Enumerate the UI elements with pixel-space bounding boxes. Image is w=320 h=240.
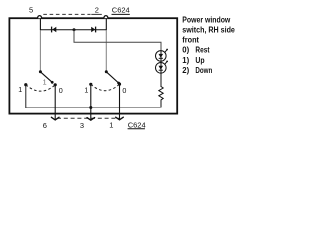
svg-text:2: 2 (95, 6, 99, 15)
svg-text:front: front (182, 35, 199, 45)
svg-text:Down: Down (195, 65, 212, 75)
svg-text:1: 1 (109, 120, 113, 129)
svg-text:1): 1) (182, 55, 189, 65)
svg-text:Rest: Rest (195, 45, 209, 55)
svg-text:C624: C624 (128, 120, 146, 129)
svg-text:1: 1 (43, 77, 47, 86)
svg-text:5: 5 (29, 6, 33, 15)
svg-text:1: 1 (84, 85, 88, 94)
svg-text:Up: Up (195, 55, 204, 65)
svg-text:6: 6 (43, 121, 47, 130)
svg-text:0): 0) (182, 45, 189, 55)
svg-text:2): 2) (182, 65, 189, 75)
svg-text:1: 1 (18, 85, 22, 94)
svg-text:0: 0 (59, 86, 63, 95)
svg-text:3: 3 (80, 121, 84, 130)
svg-text:0: 0 (122, 86, 126, 95)
svg-text:switch, RH side: switch, RH side (182, 25, 235, 35)
svg-text:Power window: Power window (182, 14, 230, 24)
svg-text:C624: C624 (112, 6, 130, 15)
